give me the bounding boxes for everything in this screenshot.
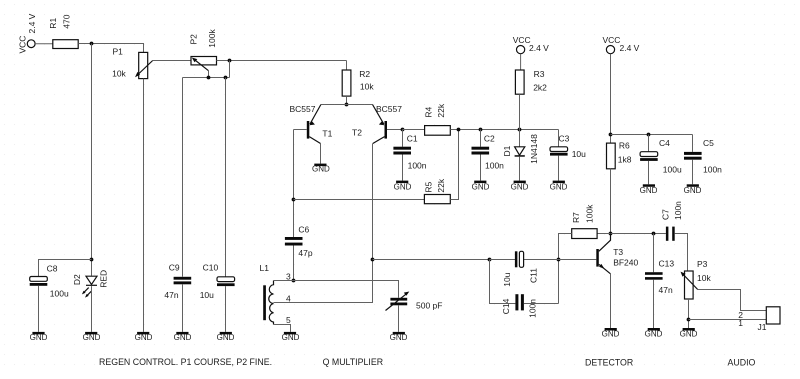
wire rail down to C9 bbox=[182, 78, 184, 277]
capacitor C14 100n bbox=[501, 294, 538, 318]
svg-text:VCC: VCC bbox=[513, 35, 531, 45]
wire D2 to GND bbox=[91, 286, 93, 332]
svg-text:C8: C8 bbox=[47, 264, 58, 274]
svg-text:22k: 22k bbox=[436, 103, 446, 117]
wire R1 to P1 bbox=[78, 44, 143, 53]
wire T3 emitter to GND bbox=[610, 274, 612, 328]
svg-text:47n: 47n bbox=[659, 285, 673, 295]
wire R4 to C3 bbox=[450, 129, 558, 131]
svg-text:1N4148: 1N4148 bbox=[529, 134, 539, 164]
svg-text:P3: P3 bbox=[697, 259, 708, 269]
svg-text:10k: 10k bbox=[697, 273, 711, 283]
wire P1 bottom to GND bbox=[143, 79, 145, 332]
wire down from main to C9/C10 rail bbox=[229, 61, 231, 78]
connector J1 bbox=[738, 307, 780, 332]
capacitor C8 100u bbox=[30, 264, 69, 299]
svg-text:C3: C3 bbox=[559, 133, 570, 143]
resistor R7 100k bbox=[571, 204, 597, 239]
svg-text:R6: R6 bbox=[619, 141, 630, 151]
ground C3 bbox=[550, 181, 568, 192]
svg-text:R2: R2 bbox=[359, 69, 370, 79]
ground C4 bbox=[640, 184, 658, 195]
svg-text:10u: 10u bbox=[200, 290, 214, 300]
svg-text:BC557: BC557 bbox=[376, 104, 402, 114]
resistor R6 1k8 bbox=[607, 141, 632, 169]
wire node to R4 bbox=[403, 129, 425, 131]
node wiper on rail bbox=[207, 76, 211, 80]
wire rail down to C10 bbox=[225, 78, 227, 277]
node R5 branch bbox=[292, 198, 296, 202]
svg-text:100n: 100n bbox=[485, 161, 504, 171]
capacitor C9 47n bbox=[164, 263, 191, 301]
ground C2 bbox=[472, 181, 490, 192]
wire rail to C5 bbox=[611, 134, 693, 136]
capacitor C6 47p bbox=[285, 224, 313, 258]
wire T2 collector down to L1 tap bbox=[274, 144, 373, 303]
svg-text:GND: GND bbox=[550, 182, 568, 191]
svg-text:22k: 22k bbox=[436, 178, 446, 192]
ground C9 bbox=[174, 332, 192, 342]
svg-text:C6: C6 bbox=[298, 224, 309, 234]
node C13 branch bbox=[652, 232, 656, 236]
LED D2 RED bbox=[72, 270, 109, 298]
ground D2 bbox=[83, 332, 101, 342]
capacitor C3 10u bbox=[550, 130, 586, 181]
svg-text:GND: GND bbox=[645, 329, 663, 338]
svg-text:C10: C10 bbox=[203, 263, 219, 273]
svg-text:C9: C9 bbox=[169, 263, 180, 273]
wire R3 to D1 node bbox=[519, 94, 521, 129]
svg-text:BC557: BC557 bbox=[290, 104, 316, 114]
svg-text:4: 4 bbox=[286, 294, 291, 304]
svg-text:GND: GND bbox=[135, 333, 153, 342]
wire T1 base bbox=[294, 129, 307, 131]
ground P1 bbox=[135, 332, 153, 342]
wire C11 to T3 base bbox=[524, 259, 597, 261]
wire C8 to GND bbox=[38, 286, 40, 332]
wire R7 right bbox=[597, 233, 610, 235]
potentiometer P3 10k bbox=[681, 259, 712, 299]
svg-text:BF240: BF240 bbox=[613, 258, 638, 268]
wire emitter rail bbox=[321, 104, 373, 106]
wire VCC to R1 bbox=[35, 43, 53, 45]
svg-text:1: 1 bbox=[738, 318, 743, 328]
wire P2 to R2 bbox=[217, 60, 347, 62]
variable capacitor 500 pF bbox=[386, 292, 443, 311]
svg-text:GND: GND bbox=[394, 182, 412, 191]
wire R5 right up to base rail bbox=[450, 130, 458, 200]
wire main to R2 top bbox=[346, 61, 348, 71]
wire to C8 bbox=[39, 260, 92, 277]
svg-text:47p: 47p bbox=[298, 248, 312, 258]
node C2 bbox=[479, 128, 483, 132]
ground T1 bbox=[312, 164, 330, 174]
transistor T3 BF240 bbox=[596, 234, 638, 274]
node emitter rail bbox=[345, 103, 349, 107]
svg-text:100k: 100k bbox=[585, 204, 595, 223]
wire C7 to P3 bbox=[675, 234, 688, 272]
svg-text:100u: 100u bbox=[50, 289, 69, 299]
svg-text:C1: C1 bbox=[407, 134, 418, 144]
capacitor C5 100n bbox=[684, 135, 722, 185]
svg-text:REGEN CONTROL. P1 COURSE, P2 F: REGEN CONTROL. P1 COURSE, P2 FINE. bbox=[99, 357, 272, 367]
svg-text:R4: R4 bbox=[424, 106, 434, 117]
svg-text:2.4 V: 2.4 V bbox=[27, 13, 37, 33]
power VCC (middle) bbox=[513, 35, 549, 54]
capacitor C11 10u bbox=[502, 251, 539, 286]
wire T1 collector to GND bbox=[320, 144, 322, 164]
node C10 on rail bbox=[224, 76, 228, 80]
wire C10 to GND bbox=[225, 286, 227, 332]
svg-text:GND: GND bbox=[511, 182, 529, 191]
svg-text:GND: GND bbox=[472, 182, 490, 191]
svg-text:10k: 10k bbox=[360, 82, 374, 92]
wire P3 bottom to GND bbox=[688, 299, 690, 328]
wire R6 to collector node bbox=[610, 169, 612, 234]
wire C9 to GND bbox=[182, 284, 184, 332]
wire C9-C10 rail bbox=[183, 77, 230, 79]
wire R2 to emitter rail bbox=[346, 96, 348, 104]
svg-text:2.4 V: 2.4 V bbox=[529, 43, 549, 53]
svg-text:GND: GND bbox=[684, 186, 702, 195]
wire P3 wiper to J1 pin 2 bbox=[698, 290, 767, 311]
inductor L1 bbox=[260, 263, 292, 325]
wire C14 right up to R7 bbox=[524, 303, 559, 305]
svg-text:10u: 10u bbox=[502, 272, 512, 286]
svg-text:GND: GND bbox=[282, 333, 300, 342]
node D1 bbox=[518, 128, 522, 132]
svg-text:D1: D1 bbox=[502, 145, 512, 156]
ground C10 bbox=[217, 332, 235, 342]
node C11/C14 left junction bbox=[488, 258, 492, 262]
svg-text:GND: GND bbox=[640, 186, 658, 195]
wire node down to D2 bbox=[91, 44, 93, 276]
svg-text:100n: 100n bbox=[408, 161, 427, 171]
wire tank to C11 node bbox=[373, 259, 490, 261]
svg-text:GND: GND bbox=[680, 329, 698, 338]
ground P3 bbox=[680, 328, 698, 338]
power VCC (left) bbox=[18, 13, 37, 53]
svg-text:GND: GND bbox=[312, 164, 330, 173]
ground C5 bbox=[684, 184, 702, 195]
node R1-P1-D2 junction bbox=[90, 42, 94, 46]
wire C6 to tank node bbox=[293, 246, 295, 281]
wire VCC down to R6 bbox=[610, 54, 612, 143]
node R5 rail bbox=[457, 128, 461, 132]
svg-text:C7: C7 bbox=[661, 209, 671, 220]
svg-text:P1: P1 bbox=[113, 47, 124, 57]
wire P1 wiper to P2 bbox=[153, 60, 191, 62]
svg-text:5: 5 bbox=[286, 315, 291, 325]
svg-text:C14: C14 bbox=[501, 298, 511, 314]
transistor T1 BC557 bbox=[290, 104, 333, 144]
svg-text:47n: 47n bbox=[164, 290, 178, 300]
wire to C11 left bbox=[490, 259, 516, 261]
resistor R5 22k bbox=[424, 178, 451, 204]
capacitor C13 47n bbox=[645, 234, 674, 329]
svg-text:C13: C13 bbox=[659, 258, 675, 268]
svg-text:100n: 100n bbox=[703, 165, 722, 175]
svg-text:J1: J1 bbox=[758, 322, 767, 332]
wire varcap to GND bbox=[398, 305, 400, 332]
node L1 pin 3 bbox=[292, 279, 296, 283]
svg-text:RED: RED bbox=[99, 270, 109, 288]
power VCC (right) bbox=[603, 35, 640, 54]
capacitor C2 100n bbox=[472, 130, 505, 181]
ground T3 bbox=[602, 328, 620, 338]
svg-text:C4: C4 bbox=[659, 138, 670, 148]
svg-text:C11: C11 bbox=[529, 268, 539, 283]
node P3 pin1 junction bbox=[687, 318, 691, 322]
ground varcap bbox=[390, 332, 408, 342]
svg-text:C2: C2 bbox=[484, 134, 495, 144]
svg-text:100u: 100u bbox=[663, 165, 682, 175]
potentiometer P2 100k bbox=[189, 29, 217, 78]
svg-text:100n: 100n bbox=[673, 201, 683, 220]
ground D1 bbox=[511, 181, 529, 192]
svg-text:100k: 100k bbox=[207, 29, 217, 48]
svg-text:10u: 10u bbox=[572, 149, 586, 159]
capacitor C7 100n bbox=[661, 201, 683, 241]
svg-text:2k2: 2k2 bbox=[533, 82, 547, 92]
wire collector node to C7 bbox=[611, 233, 666, 235]
wire T1 base net down to C6 bbox=[293, 130, 295, 238]
svg-text:R3: R3 bbox=[534, 69, 545, 79]
node T3 collector bbox=[609, 232, 613, 236]
wire C14 branch bbox=[490, 260, 516, 304]
transistor T2 BC557 bbox=[352, 104, 402, 144]
resistor R1 470 bbox=[48, 14, 78, 48]
svg-text:2.4 V: 2.4 V bbox=[620, 43, 640, 53]
capacitor C1 100n bbox=[393, 130, 426, 181]
resistor R3 2k2 bbox=[515, 69, 547, 94]
svg-text:GND: GND bbox=[30, 333, 48, 342]
node C4 bbox=[647, 133, 651, 137]
svg-text:GND: GND bbox=[217, 333, 235, 342]
svg-text:D2: D2 bbox=[72, 274, 82, 285]
svg-text:P2: P2 bbox=[189, 34, 199, 45]
resistor R2 10k bbox=[342, 69, 374, 96]
svg-text:100n: 100n bbox=[528, 299, 538, 318]
capacitor C10 10u bbox=[200, 263, 235, 301]
svg-text:DETECTOR: DETECTOR bbox=[585, 358, 633, 368]
svg-text:3: 3 bbox=[286, 271, 291, 281]
potentiometer P1 10k bbox=[112, 47, 153, 79]
svg-text:R5: R5 bbox=[424, 181, 434, 192]
node C1 / T2 base bbox=[401, 128, 405, 132]
svg-text:T3: T3 bbox=[613, 247, 623, 257]
svg-text:Q MULTIPLIER: Q MULTIPLIER bbox=[323, 357, 383, 367]
wire R5 link bbox=[294, 199, 425, 201]
node R6 top rail bbox=[609, 133, 613, 137]
svg-text:470: 470 bbox=[62, 14, 72, 28]
wire R7 left down to C14 bbox=[559, 234, 572, 304]
diode D1 1N4148 bbox=[502, 130, 539, 181]
ground C13 bbox=[645, 328, 663, 338]
node T2 collector to C11 branch bbox=[371, 258, 375, 262]
ground C1 bbox=[394, 181, 412, 192]
wire pin3 to varcap bbox=[274, 281, 399, 298]
svg-text:GND: GND bbox=[602, 329, 620, 338]
node C8 branch bbox=[90, 258, 94, 262]
capacitor C4 100u bbox=[640, 135, 682, 185]
svg-text:VCC: VCC bbox=[18, 36, 28, 54]
svg-text:GND: GND bbox=[83, 333, 101, 342]
svg-text:C5: C5 bbox=[703, 138, 714, 148]
wire pin 1 bbox=[689, 319, 767, 321]
svg-text:AUDIO: AUDIO bbox=[728, 358, 756, 368]
wire VCC to R3 bbox=[520, 54, 522, 70]
svg-text:T1: T1 bbox=[322, 128, 332, 138]
node base rail bbox=[557, 258, 561, 262]
svg-text:10k: 10k bbox=[112, 69, 126, 79]
node main wire to lower rail bbox=[228, 59, 232, 63]
svg-text:VCC: VCC bbox=[603, 35, 621, 45]
ground L1 bbox=[282, 332, 300, 342]
svg-text:GND: GND bbox=[174, 333, 192, 342]
ground C8 bbox=[30, 332, 48, 342]
svg-text:R1: R1 bbox=[48, 18, 58, 29]
svg-text:500 pF: 500 pF bbox=[416, 301, 442, 311]
svg-text:T2: T2 bbox=[352, 128, 362, 138]
svg-text:GND: GND bbox=[390, 333, 408, 342]
wire T2 base to C1 node bbox=[387, 129, 403, 131]
wire pin5 to GND bbox=[274, 325, 291, 332]
resistor R4 22k bbox=[424, 103, 451, 135]
svg-text:L1: L1 bbox=[260, 263, 270, 273]
svg-text:1k8: 1k8 bbox=[618, 155, 632, 165]
svg-text:R7: R7 bbox=[571, 212, 581, 223]
